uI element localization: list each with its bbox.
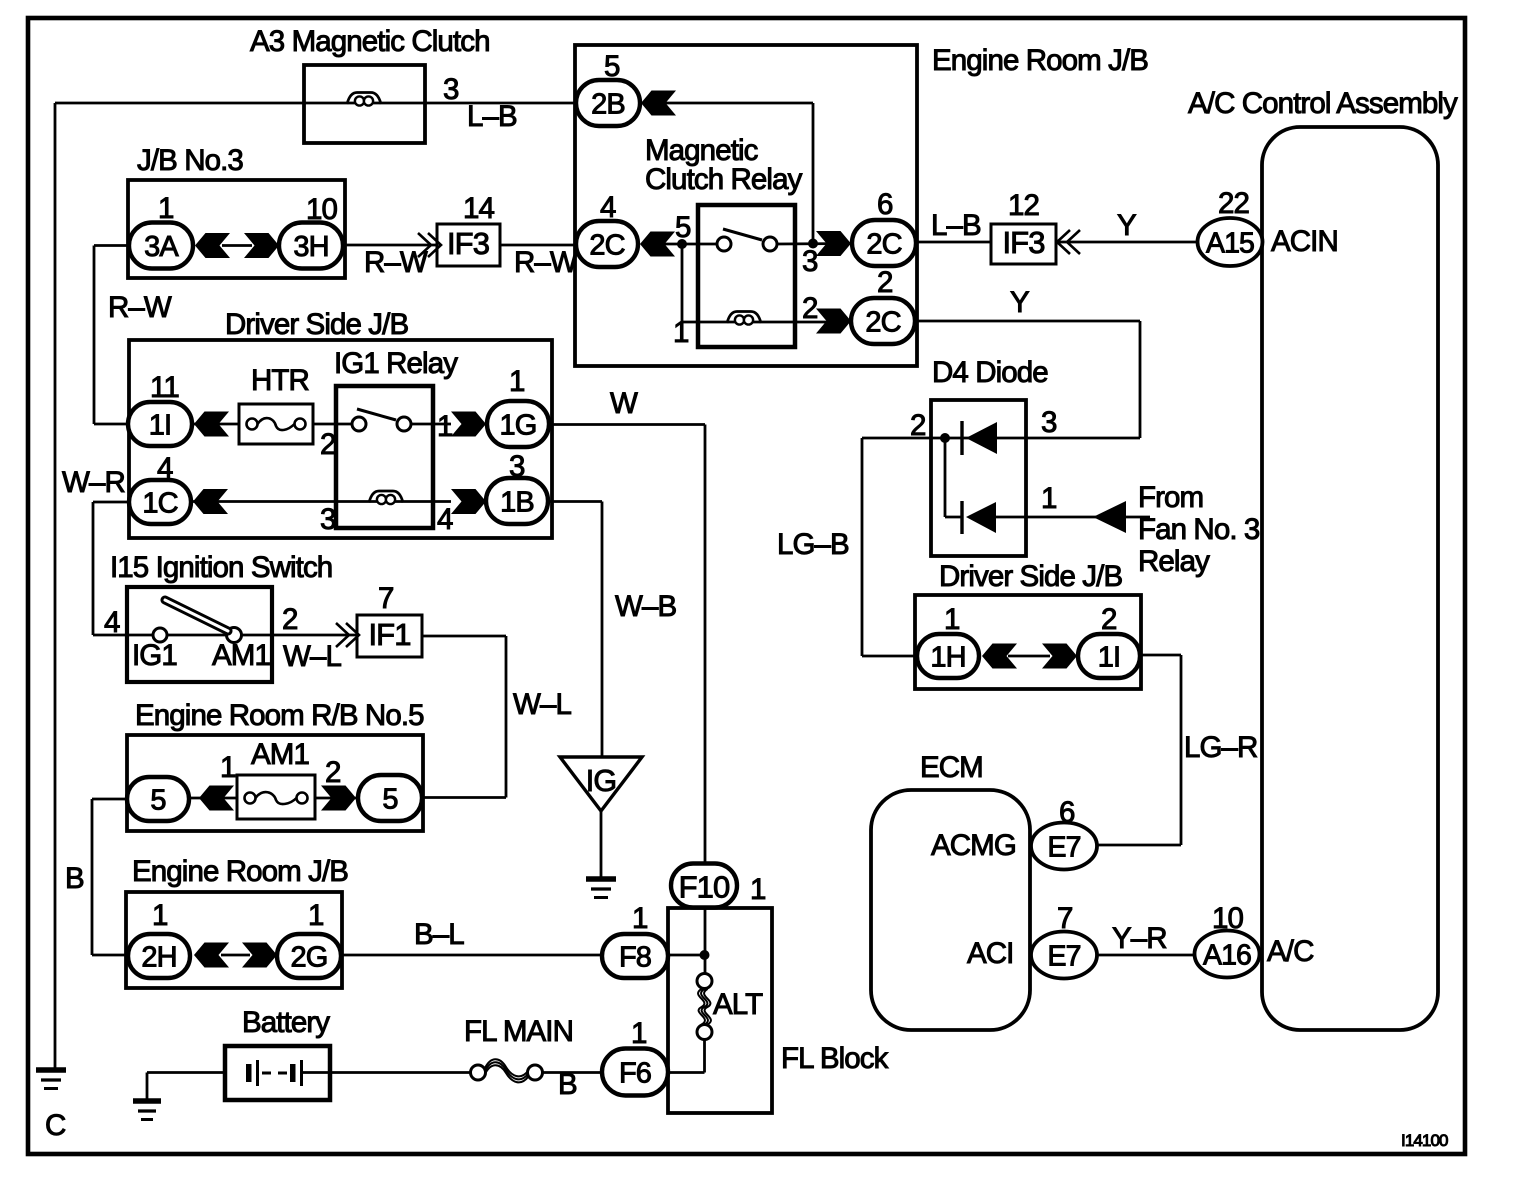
svg-text:F8: F8 (619, 942, 651, 974)
svg-text:1: 1 (158, 192, 174, 225)
svg-text:LG–B: LG–B (777, 528, 849, 561)
svg-text:L–B: L–B (467, 100, 517, 133)
svg-text:ACI: ACI (967, 937, 1013, 970)
svg-text:2: 2 (282, 603, 298, 636)
svg-text:2: 2 (910, 409, 926, 442)
svg-text:W–B: W–B (615, 590, 676, 623)
svg-text:4: 4 (437, 503, 453, 536)
svg-text:LG–R: LG–R (1184, 731, 1257, 764)
svg-text:F6: F6 (619, 1058, 651, 1090)
svg-text:A15: A15 (1206, 228, 1254, 260)
svg-text:Driver Side J/B: Driver Side J/B (939, 560, 1122, 593)
svg-text:A3 Magnetic Clutch: A3 Magnetic Clutch (250, 25, 490, 58)
svg-text:Fan No. 3: Fan No. 3 (1138, 513, 1260, 546)
svg-text:A/C Control Assembly: A/C Control Assembly (1188, 87, 1458, 120)
svg-text:2: 2 (877, 266, 893, 299)
svg-text:FL Block: FL Block (781, 1042, 889, 1075)
svg-text:E7: E7 (1047, 941, 1080, 973)
svg-text:5: 5 (675, 211, 691, 244)
svg-text:12: 12 (1008, 189, 1039, 222)
svg-text:IG1: IG1 (132, 639, 177, 672)
svg-text:IF3: IF3 (447, 226, 489, 261)
svg-text:R–W: R–W (108, 291, 172, 324)
svg-text:IG1 Relay: IG1 Relay (334, 347, 458, 380)
svg-text:W–L: W–L (283, 640, 341, 673)
svg-text:3: 3 (802, 245, 818, 278)
svg-text:From: From (1138, 481, 1203, 514)
svg-text:Driver Side J/B: Driver Side J/B (225, 308, 408, 341)
svg-text:6: 6 (1059, 796, 1075, 829)
svg-text:Engine Room J/B: Engine Room J/B (132, 855, 348, 888)
svg-text:Clutch Relay: Clutch Relay (645, 163, 803, 196)
svg-text:4: 4 (600, 191, 616, 224)
svg-text:2: 2 (1101, 603, 1117, 636)
svg-text:1: 1 (750, 873, 766, 906)
svg-text:3: 3 (443, 73, 459, 106)
svg-text:Engine Room J/B: Engine Room J/B (932, 44, 1148, 77)
svg-text:Relay: Relay (1138, 545, 1210, 578)
svg-text:B: B (65, 862, 84, 895)
svg-text:14: 14 (463, 192, 495, 225)
svg-text:1: 1 (437, 410, 453, 443)
svg-text:10: 10 (1212, 902, 1244, 935)
svg-text:1B: 1B (500, 487, 534, 519)
svg-text:2H: 2H (141, 942, 176, 974)
svg-text:5: 5 (604, 50, 620, 83)
svg-text:2G: 2G (291, 942, 328, 974)
svg-text:2: 2 (320, 428, 336, 461)
svg-text:3: 3 (509, 450, 525, 483)
svg-text:7: 7 (378, 582, 394, 615)
svg-text:22: 22 (1218, 187, 1249, 220)
svg-text:R–W: R–W (514, 246, 578, 279)
svg-text:Y: Y (1010, 286, 1030, 319)
svg-text:5: 5 (382, 784, 397, 816)
svg-text:1: 1 (673, 316, 689, 349)
svg-text:2: 2 (325, 756, 341, 789)
svg-text:IF3: IF3 (1002, 225, 1044, 260)
svg-text:AM1: AM1 (212, 639, 270, 672)
svg-text:1H: 1H (930, 642, 965, 674)
svg-text:3: 3 (320, 503, 336, 536)
svg-text:3A: 3A (144, 231, 179, 263)
svg-text:1C: 1C (142, 488, 177, 520)
svg-text:IG: IG (586, 764, 616, 798)
svg-text:L–B: L–B (931, 209, 981, 242)
svg-text:Battery: Battery (242, 1006, 330, 1039)
svg-text:2C: 2C (866, 229, 901, 261)
svg-text:1I: 1I (149, 410, 171, 442)
svg-text:Engine Room R/B No.5: Engine Room R/B No.5 (135, 699, 424, 732)
svg-text:AM1: AM1 (251, 738, 309, 771)
svg-text:6: 6 (877, 188, 893, 221)
svg-text:A16: A16 (1203, 940, 1251, 972)
svg-text:E7: E7 (1047, 832, 1080, 864)
svg-text:R–W: R–W (364, 246, 428, 279)
svg-text:2C: 2C (589, 230, 624, 262)
svg-text:W–R: W–R (62, 466, 125, 499)
svg-text:Y: Y (1117, 209, 1137, 242)
svg-text:7: 7 (1057, 902, 1073, 935)
svg-text:2C: 2C (865, 307, 900, 339)
svg-text:4: 4 (157, 452, 173, 485)
svg-text:I14100: I14100 (1401, 1131, 1448, 1150)
svg-text:B–L: B–L (414, 918, 464, 951)
svg-text:1: 1 (509, 365, 525, 398)
svg-text:10: 10 (306, 193, 338, 226)
svg-text:4: 4 (104, 606, 120, 639)
svg-text:3: 3 (1041, 406, 1057, 439)
svg-text:1: 1 (220, 751, 236, 784)
svg-text:1: 1 (308, 899, 324, 932)
svg-text:W: W (610, 387, 638, 420)
svg-text:HTR: HTR (251, 364, 309, 397)
svg-text:F10: F10 (679, 870, 730, 905)
svg-text:2: 2 (802, 292, 818, 325)
svg-text:1G: 1G (500, 410, 537, 442)
svg-text:5: 5 (150, 785, 165, 817)
svg-text:ECM: ECM (920, 751, 983, 784)
svg-text:1: 1 (944, 603, 960, 636)
svg-text:D4 Diode: D4 Diode (932, 356, 1048, 389)
svg-text:Y–R: Y–R (1112, 922, 1167, 955)
svg-text:W–L: W–L (513, 688, 571, 721)
svg-text:1: 1 (632, 902, 648, 935)
svg-text:FL MAIN: FL MAIN (464, 1015, 573, 1048)
svg-text:11: 11 (150, 371, 179, 404)
svg-text:1I: 1I (1098, 642, 1120, 674)
svg-text:1: 1 (1041, 482, 1057, 515)
svg-text:ACMG: ACMG (931, 829, 1016, 862)
svg-text:3H: 3H (293, 231, 328, 263)
svg-text:C: C (45, 1109, 66, 1142)
svg-text:2B: 2B (591, 89, 625, 121)
svg-text:IF1: IF1 (368, 617, 410, 652)
svg-text:A/C: A/C (1267, 935, 1314, 968)
svg-text:ALT: ALT (713, 988, 763, 1021)
svg-text:B: B (558, 1068, 577, 1101)
svg-text:1: 1 (152, 899, 168, 932)
svg-text:I15 Ignition Switch: I15 Ignition Switch (110, 551, 332, 584)
svg-text:ACIN: ACIN (1271, 225, 1338, 258)
svg-text:J/B No.3: J/B No.3 (137, 144, 243, 177)
svg-text:1: 1 (631, 1017, 647, 1050)
